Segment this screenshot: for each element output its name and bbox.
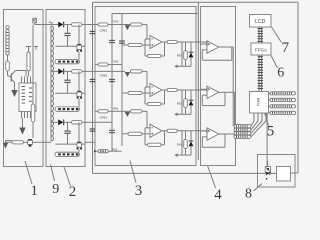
resistor R5 (72, 23, 83, 26)
wire T1 tap to diode D3 (51, 70, 58, 72)
svg-text:MCU: MCU (256, 98, 260, 107)
wire inverting input ch2 (201, 88, 208, 90)
label strip LS1 (55, 59, 80, 63)
ladder branch wires ch2 (181, 90, 183, 114)
wire vertical bus V1 in block3 (111, 14, 113, 152)
wire column to resistor R2 (32, 25, 34, 105)
capacitor on bus V2 ch1 (119, 40, 125, 42)
wire T1 tap to diode D4 (51, 121, 58, 123)
inner module box in block 8 (277, 167, 291, 182)
wire cap branch node ch1 (67, 25, 69, 34)
IC U1 top pins (21, 77, 23, 84)
callout leader 9 (51, 165, 55, 182)
block 4 outline (comparator unit) (201, 7, 236, 166)
svg-text:5: 5 (267, 124, 275, 140)
wire to op-amp inverting input ch3 (142, 110, 147, 112)
IC U1 bottom pins (21, 112, 23, 119)
wire line A to bus V2 ch1 (108, 24, 122, 26)
comparator U6 (207, 86, 219, 98)
input arrow mark ch1 (207, 43, 210, 46)
input arrow mark ch3 (207, 130, 210, 133)
feedback loop rectangle ch2 (219, 91, 225, 93)
zener diode Z2 (190, 90, 192, 100)
callout leader 2 (64, 167, 71, 186)
capacitor C3 (64, 130, 70, 132)
capacitor on left edge bus ch1 (90, 30, 96, 32)
wire S1 to resistor R1 (7, 55, 9, 61)
resistor R13a (98, 110, 108, 113)
MOSFET Q5 (78, 122, 80, 141)
wire op-amp output to block4 ch2 (177, 89, 207, 91)
wire Q3 to label strip LS1 (78, 52, 80, 60)
wire op-amp output to block4 ch3 (177, 130, 207, 132)
feedback resistor R13d (148, 143, 162, 146)
sensor string S1 segmented body (6, 30, 9, 56)
feedback loop rectangle ch3 (219, 133, 225, 135)
callout leader 6 (271, 56, 278, 69)
ground arrow under IC U1 (22, 118, 24, 128)
photo transistor Q5 in block 8 (265, 167, 270, 173)
resistor R7 (72, 121, 83, 124)
diode D2 (58, 22, 63, 28)
resistor R12f vertical (184, 99, 188, 108)
zener diode Z1 (190, 42, 192, 52)
svg-text:R61: R61 (177, 142, 183, 146)
wire right-side vertical drop to block 8 (297, 2, 299, 173)
wire block1 bottom rail to transformer (37, 141, 52, 143)
svg-text:2: 2 (69, 184, 77, 200)
connector pill J1 (270, 92, 296, 95)
MCU bottom pins (253, 113, 255, 121)
connector pill J2 (270, 98, 296, 101)
wire vertical bus V2 in block3 (121, 14, 123, 147)
wire Q5 to inner module (270, 172, 277, 174)
wire cap branch node ch2 (67, 71, 69, 80)
svg-text:CR63: CR63 (99, 29, 107, 33)
wire R2 to switch Q2 (32, 122, 34, 138)
svg-text:3: 3 (135, 183, 143, 199)
ground arrow under Q1 (11, 90, 17, 97)
tee stub node B (34, 46, 38, 48)
callout leader 8 (254, 184, 263, 192)
ribbon bus LCD to FPGA (258, 27, 260, 43)
wire R7 to block3 (82, 121, 95, 123)
wire cap branch node ch3 (67, 122, 69, 131)
IC U1 label marks (22, 86, 26, 88)
capacitor on bus V1 ch1 (109, 39, 115, 41)
resistor R12c to non-inverting input ch2 (122, 92, 128, 94)
wire block1 to transformer primary (35, 24, 59, 26)
wire MCU to block 8 (266, 113, 268, 121)
wire lower rail ch3 (55, 143, 77, 145)
ladder branch wires ch3 (181, 131, 183, 155)
callout leader 5 (265, 113, 269, 126)
wire inverting input ch1 (201, 43, 208, 45)
wire T1 tap to diode D2 (51, 24, 58, 26)
output connector pill row 2 (234, 128, 251, 131)
wire to op-amp inverting input ch2 (142, 70, 147, 72)
comparator U5 (207, 41, 219, 53)
connector pill J3 (270, 105, 296, 108)
comparator U7 (207, 128, 219, 140)
wire input line B from block2 ch2 (95, 70, 125, 72)
wire D4 to resistor R7 (63, 121, 71, 123)
resistor R3 horizontal (12, 141, 24, 144)
svg-text:1: 1 (30, 183, 38, 199)
antenna tee of sensor string S2 (26, 46, 31, 48)
wire input line A ch2 (95, 64, 98, 66)
discharge arrow wire ch2 (178, 113, 192, 115)
ground arrow ch1 (125, 25, 130, 30)
svg-text:9: 9 (52, 182, 59, 197)
wire bottom rail in block1 (6, 140, 13, 142)
svg-text:CR62: CR62 (99, 74, 107, 78)
resistor R13c to non-inverting input ch3 (122, 133, 128, 135)
svg-text:7: 7 (282, 40, 290, 56)
ribbon bus FPGA to MCU (258, 55, 260, 92)
wire S2 to IC U1 (28, 71, 30, 77)
svg-text:R62: R62 (177, 102, 183, 106)
resistor R12a (98, 63, 108, 66)
MOSFET Q3 (78, 25, 80, 44)
ground arrow ch3 (125, 112, 130, 117)
wire RN1 to bus V2 (108, 150, 121, 152)
wire Q1 emitter down (14, 83, 16, 91)
resistor R11b (131, 23, 143, 26)
feedback loop ch3 (162, 130, 167, 132)
striped resistor network RN1 bottom of block3 (98, 150, 108, 153)
wire D3 to resistor R6 (63, 70, 71, 72)
wire from block2 bottom rail into block3 (85, 141, 95, 143)
wire line A to bus V2 ch2 (108, 64, 122, 66)
resistor R13b (131, 110, 143, 113)
MOSFET Q4 (78, 71, 80, 90)
wire block2 ch3 output joining bus V1 (95, 121, 112, 123)
sensor string S2 body (27, 52, 30, 71)
resistor R11a (98, 23, 108, 26)
wire rail top of block3 (112, 13, 198, 15)
resistor R12b (131, 70, 143, 73)
svg-text:6: 6 (277, 66, 284, 81)
wire D2 to resistor R5 (63, 24, 71, 26)
feedback loop rectangle ch1 (219, 46, 232, 48)
resistor R11f vertical (184, 51, 188, 60)
block 8 outline (258, 155, 296, 188)
feedback resistor R11d (148, 54, 162, 57)
svg-text:CR61: CR61 (99, 115, 107, 119)
svg-text:LCD: LCD (255, 19, 266, 25)
transistor Q1 (10, 74, 12, 82)
feedback loop ch1 (162, 41, 167, 43)
wire top bus from node above block3 to right side (93, 1, 298, 3)
wire vertical bus right of block 3 (197, 2, 199, 160)
LCD block U7 (250, 15, 272, 28)
output resistor R12e (167, 88, 177, 91)
input arrow mark ch2 (207, 88, 210, 91)
block 1 outline (string sensor unit) (4, 10, 44, 167)
zener diode Z3 (190, 131, 192, 141)
ground arrow left of R3 (3, 143, 8, 149)
feedback resistor R12d (148, 102, 162, 105)
IC U1 body (19, 83, 36, 112)
output connector pill row 3 (234, 132, 251, 135)
capacitor C1 (64, 32, 70, 34)
transformer T1 core line (50, 26, 52, 141)
svg-text:4: 4 (214, 187, 222, 200)
resistor R1 vertical (6, 61, 10, 71)
MOSFET Q2 (28, 139, 32, 140)
wire input line A ch1 (95, 24, 98, 26)
connector pill J4 (270, 111, 296, 114)
svg-text:8: 8 (245, 187, 252, 201)
wire long bottom feed to block 8 (93, 172, 267, 174)
block 3 outline (amplifier unit) (95, 7, 196, 166)
FPGA block U8 (251, 43, 271, 55)
op-amp U3 (150, 83, 162, 96)
ladder branch wires ch1 (181, 42, 183, 66)
wire Q4 to label strip LS2 (78, 99, 80, 107)
callout leader 7 (272, 27, 282, 43)
wire op-amp output to block4 ch1 (177, 41, 207, 43)
op-amp U4 (150, 124, 162, 137)
callout leader 4 (208, 166, 216, 189)
wire line A to bus V2 ch3 (108, 110, 122, 112)
callout leader 3 (130, 161, 136, 184)
resistor R6 (72, 70, 83, 73)
wire Q5 to label strip LS3 (78, 150, 80, 153)
capacitor on left edge bus ch2 (90, 78, 96, 80)
wire lower rail ch2 (55, 92, 77, 94)
resistor R13f vertical (184, 139, 188, 148)
discharge arrow wire ch3 (178, 154, 192, 156)
svg-text:R63: R63 (177, 54, 183, 58)
op-amp U2 (150, 35, 162, 48)
capacitor C2 (64, 79, 70, 81)
output resistor R13e (167, 129, 177, 132)
capacitor on bus V1 ch3 (109, 129, 115, 131)
diode D4 (58, 119, 63, 125)
ground arrow ch2 (125, 72, 130, 77)
svg-text:FPGA: FPGA (255, 47, 267, 52)
wire inverting input ch3 (201, 130, 208, 132)
svg-text:R19: R19 (112, 148, 118, 152)
wire vertical bus left of block 3 (92, 2, 94, 173)
bottom circuit in block3: junction dot (94, 150, 96, 152)
wire R1 to transistor Q1 (7, 71, 9, 76)
fuse F1 at block1 output (33, 18, 37, 23)
wire Q1 collector to node (16, 70, 27, 72)
transformer polarity mark (49, 22, 53, 23)
wire R5 to block3 (82, 24, 95, 26)
output resistor R11e (167, 40, 177, 43)
discharge arrow wire ch1 (178, 65, 192, 67)
capacitor on left edge bus ch3 (90, 128, 96, 130)
MCU block U9 (250, 92, 269, 114)
wire input line A ch3 (95, 110, 98, 112)
sensor string S1 top ball (6, 26, 9, 29)
capacitor on bus V1 ch2 (109, 78, 115, 80)
diode arrow on wire in block 8 (266, 172, 270, 175)
feedback loop ch2 (162, 89, 167, 91)
wire lower rail ch1 (55, 45, 77, 47)
callout leader 1 (25, 161, 32, 184)
wire R3 to Q2 (24, 141, 30, 143)
wire to op-amp inverting input ch1 (142, 24, 147, 26)
output connector pill row 4 (234, 135, 251, 138)
svg-text:R63: R63 (113, 20, 119, 24)
block 2 outline (transformer/rectifier unit) (46, 10, 85, 167)
wire fan MCU pins to output pills (251, 121, 254, 126)
output connector pill row 1 (234, 125, 251, 128)
label strip LS3 (55, 152, 80, 156)
svg-text:R61: R61 (113, 107, 119, 111)
wire comparator outputs to connector pills (232, 46, 233, 48)
resistor R2 vertical (31, 104, 35, 122)
diode D3 (58, 69, 63, 75)
label strip LS2 (55, 107, 80, 111)
resistor R11c to non-inverting input ch1 (122, 44, 128, 46)
transformer T1 winding loops (51, 26, 54, 141)
wire R6 to block3 (82, 70, 95, 72)
svg-text:R62: R62 (113, 60, 119, 64)
